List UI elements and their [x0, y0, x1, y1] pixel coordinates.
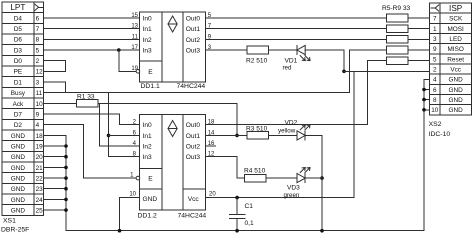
svg-text:15: 15: [131, 13, 138, 19]
svg-text:GND: GND: [11, 186, 26, 193]
resistor R8 33: [386, 46, 408, 54]
svg-text:GND: GND: [449, 107, 464, 114]
wire XS1 GND pin 23: [44, 188, 67, 190]
svg-text:10: 10: [36, 101, 44, 108]
wire XS1 GND pin 19: [44, 145, 67, 147]
wire GND bus vertical: [66, 135, 424, 230]
wire XS1 GND pin 22: [44, 177, 67, 179]
svg-text:GND: GND: [11, 133, 26, 140]
svg-text:XS1: XS1: [3, 218, 16, 225]
svg-text:D2: D2: [14, 122, 23, 129]
svg-text:Out2: Out2: [186, 144, 201, 151]
wire DD1.1 Out0 to R5: [206, 17, 387, 19]
resistor R7 33: [386, 36, 408, 44]
junction LED rail/GND bus: [320, 229, 324, 233]
wire XS2 GND bus vertical: [423, 79, 425, 230]
svg-text:10: 10: [129, 192, 136, 198]
svg-text:GND: GND: [11, 165, 26, 172]
wire VD2 cathode down: [305, 135, 322, 178]
svg-text:24: 24: [36, 197, 44, 204]
svg-text:D7: D7: [14, 111, 23, 118]
LED VD1 red: [296, 45, 298, 54]
svg-text:In2: In2: [143, 144, 152, 151]
connector XS1 DBR-25F (LPT): [2, 2, 44, 215]
svg-text:4: 4: [433, 77, 437, 84]
svg-text:In0: In0: [143, 122, 152, 129]
svg-text:7: 7: [433, 16, 437, 23]
svg-text:D4: D4: [14, 15, 23, 22]
wire D5 to DD1.1 In1: [44, 28, 140, 30]
junction XS2 GND pin10: [422, 108, 426, 112]
svg-text:Reset: Reset: [447, 56, 464, 63]
wire D3 to DD1.1 E pin 19: [119, 50, 136, 71]
svg-text:VD2: VD2: [285, 119, 298, 126]
svg-text:D6: D6: [14, 37, 23, 44]
wire XS2 GND pin4: [424, 78, 430, 80]
wire DD1.2 GND pin10 to bus: [120, 198, 140, 231]
svg-text:SCK: SCK: [449, 16, 463, 23]
junction XS2 GND pin6: [422, 88, 426, 92]
wire R1 to node: [98, 102, 237, 104]
svg-text:GND: GND: [143, 196, 158, 203]
svg-text:PE: PE: [14, 69, 23, 76]
svg-text:green: green: [284, 192, 300, 199]
wire XS2 GND pin10: [424, 109, 430, 111]
wire R8 to MISO drop: [350, 50, 387, 93]
wire XS1 GND pin 18: [44, 134, 67, 136]
svg-text:20: 20: [209, 192, 216, 198]
svg-text:R5-R9 33: R5-R9 33: [382, 5, 411, 12]
junction GND bus: [64, 166, 68, 170]
svg-text:Vcc: Vcc: [450, 67, 461, 74]
wire D6 to DD1.1 In2: [44, 38, 140, 40]
svg-text:VD1: VD1: [285, 57, 298, 64]
svg-text:LED: LED: [449, 36, 462, 43]
svg-text:R1 33: R1 33: [77, 93, 95, 100]
junction GND bus: [64, 176, 68, 180]
svg-text:13: 13: [131, 24, 138, 30]
svg-text:red: red: [283, 64, 293, 71]
wire DD1.2 In1 stub: [109, 134, 140, 136]
wire VD3 to cathode rail: [305, 177, 322, 179]
junction D3/In3/E: [117, 48, 121, 52]
resistor R2 510: [247, 46, 269, 54]
wire DD1.2 Out2 stub: [206, 145, 216, 147]
svg-text:D5: D5: [14, 26, 23, 33]
wire Vcc row: [344, 70, 430, 72]
svg-text:12: 12: [36, 69, 44, 76]
wire MISO drop to DD1.2 In1/In3: [109, 93, 140, 157]
svg-text:GND: GND: [449, 97, 464, 104]
svg-text:23: 23: [36, 186, 44, 193]
junction C1/GND bus: [235, 229, 239, 233]
svg-text:In0: In0: [143, 16, 152, 23]
svg-text:Out1: Out1: [186, 133, 201, 140]
svg-text:25: 25: [36, 208, 44, 215]
wire R2 to VD1: [269, 49, 298, 51]
svg-text:Vcc: Vcc: [188, 196, 200, 203]
svg-text:8: 8: [36, 37, 40, 44]
wire D2 to DD1.2 E pin 1: [44, 125, 137, 178]
svg-text:21: 21: [36, 165, 44, 172]
svg-text:GND: GND: [11, 176, 26, 183]
svg-text:D3: D3: [14, 47, 23, 54]
junction GND pin10/bus: [118, 229, 122, 233]
svg-text:2: 2: [433, 67, 437, 74]
svg-text:11: 11: [132, 34, 139, 40]
svg-text:Busy: Busy: [11, 90, 26, 97]
svg-text:6: 6: [433, 87, 437, 94]
svg-text:Out3: Out3: [186, 48, 201, 55]
svg-text:VD3: VD3: [287, 184, 300, 191]
inversion circle DD1.2 E pin: [136, 176, 140, 180]
wire D0-PE loopback: [44, 61, 66, 72]
svg-text:R2 510: R2 510: [246, 57, 268, 64]
svg-text:14: 14: [208, 130, 215, 136]
svg-text:4: 4: [36, 122, 40, 129]
svg-text:17: 17: [131, 45, 138, 51]
svg-text:20: 20: [36, 154, 44, 161]
svg-text:74HC244: 74HC244: [178, 212, 207, 219]
wire R1 branch to DD1.2 In2: [100, 103, 140, 146]
wire VD1 anode to Vcc row: [305, 50, 344, 71]
svg-text:R4 510: R4 510: [244, 167, 266, 174]
wire DD1.2 Out3 to R4: [206, 157, 245, 178]
wire R3 to VD2: [269, 134, 298, 136]
wire DD1.1 Out2 to R7: [206, 38, 387, 40]
LED VD2 yellow: [297, 131, 305, 140]
wire R5 to XS2 SCK: [408, 17, 430, 19]
svg-text:Out2: Out2: [186, 37, 201, 44]
svg-text:GND: GND: [11, 197, 26, 204]
svg-text:LPT: LPT: [10, 3, 25, 12]
svg-text:In1: In1: [143, 26, 152, 33]
wire DD1.1 Out3 to R2: [206, 49, 247, 51]
svg-text:In3: In3: [143, 48, 152, 55]
op-amp buffer DD1.2 74HC244: [140, 115, 206, 210]
svg-text:E: E: [148, 69, 153, 76]
svg-text:Out3: Out3: [186, 154, 201, 161]
wire R7 to XS2 LED: [408, 38, 430, 40]
svg-text:yellow: yellow: [278, 128, 296, 135]
svg-text:IDC-10: IDC-10: [429, 131, 451, 138]
op-amp buffer DD1.1 74HC244: [140, 12, 206, 82]
junction GND bus: [64, 198, 68, 202]
wire XS1 GND pin 25: [44, 209, 67, 211]
junction MISO/In1: [107, 134, 111, 138]
svg-text:74HC244: 74HC244: [177, 83, 206, 90]
inversion circle DD1.1 E pin: [136, 70, 140, 74]
wire Ack to R1: [44, 102, 77, 104]
wire R9 to DD1.2 Out0: [206, 61, 387, 125]
svg-text:D0: D0: [14, 58, 23, 65]
svg-text:11: 11: [36, 90, 43, 97]
svg-text:Out0: Out0: [186, 122, 201, 129]
svg-text:19: 19: [36, 143, 44, 150]
svg-text:DD1.1: DD1.1: [141, 83, 160, 90]
svg-text:R3 510: R3 510: [246, 125, 268, 132]
svg-text:Out1: Out1: [186, 26, 201, 33]
svg-text:6: 6: [36, 15, 40, 22]
svg-text:8: 8: [433, 97, 437, 104]
svg-text:2: 2: [36, 58, 40, 65]
wire R8 to XS2 MISO: [408, 49, 430, 51]
wire R6 to XS2 MOSI: [408, 28, 430, 30]
svg-text:Ack: Ack: [13, 101, 24, 108]
junction R1/Out1/R3: [235, 134, 239, 138]
junction GND bus: [64, 187, 68, 191]
svg-text:3: 3: [433, 36, 437, 43]
svg-text:DD1.2: DD1.2: [138, 212, 157, 219]
connector XS2 IDC-10 (ISP): [430, 3, 472, 115]
wire LED cathode rail to GND bus: [321, 178, 323, 231]
svg-text:GND: GND: [11, 154, 26, 161]
wire DD1.2 Vcc pin20: [206, 197, 355, 199]
svg-text:Out0: Out0: [186, 16, 201, 23]
svg-text:GND: GND: [449, 77, 464, 84]
resistor R1 33: [76, 100, 98, 108]
svg-text:C1: C1: [245, 203, 254, 210]
svg-text:9: 9: [433, 46, 437, 53]
svg-text:XS2: XS2: [429, 121, 442, 128]
svg-text:0,1: 0,1: [245, 220, 254, 227]
svg-text:22: 22: [36, 176, 44, 183]
wire XS1 GND pin 21: [44, 166, 67, 168]
svg-text:MOSI: MOSI: [447, 26, 464, 33]
wire XS1 GND pin 24: [44, 198, 67, 200]
junction Vcc/C1: [235, 196, 239, 200]
wire R1 net down to Out1 row: [236, 103, 238, 135]
svg-text:7: 7: [36, 26, 40, 33]
wire D4 to DD1.1 In0: [44, 17, 140, 19]
svg-text:In3: In3: [143, 154, 152, 161]
wire R9 to XS2 Reset: [408, 60, 430, 62]
wire Busy/MISO net: [66, 92, 350, 94]
svg-text:GND: GND: [11, 143, 26, 150]
LED VD3 green: [297, 174, 305, 183]
resistor R6 33: [386, 25, 408, 33]
resistor R9 33: [386, 57, 408, 65]
svg-text:1: 1: [433, 26, 437, 33]
wire DD1.1 Out1 to R6: [206, 28, 387, 30]
svg-text:D1: D1: [14, 79, 23, 86]
wire R4 to VD3: [266, 177, 297, 179]
svg-text:3: 3: [36, 79, 40, 86]
svg-text:5: 5: [433, 56, 437, 63]
svg-text:MISO: MISO: [447, 46, 463, 53]
resistor R5 33: [386, 14, 408, 22]
wire XS2 GND pin8: [424, 99, 430, 101]
wire XS1 GND pin 20: [44, 156, 67, 158]
junction GND bus: [64, 155, 68, 159]
wire D3 to DD1.1 In3: [44, 49, 140, 51]
wire D1-Busy loopback: [44, 82, 66, 93]
resistor R4 510: [245, 174, 267, 182]
resistor R3 510: [247, 132, 269, 140]
wire XS2 GND pin6: [424, 89, 430, 91]
junction VD2/VD3 cathode: [320, 176, 324, 180]
svg-text:E: E: [148, 176, 153, 183]
junction GND bus: [64, 144, 68, 148]
svg-text:9: 9: [36, 111, 40, 118]
capacitor C1 0.1: [229, 214, 245, 216]
wire Vcc riser: [353, 71, 355, 197]
svg-text:5: 5: [36, 47, 40, 54]
svg-text:DBR-25F: DBR-25F: [1, 227, 29, 234]
wire DD1.2 Out1 to R3: [206, 134, 247, 136]
svg-text:GND: GND: [11, 208, 26, 215]
junction VD1/Vcc: [342, 70, 346, 74]
wire C1 bottom to GND bus: [236, 219, 238, 231]
wire C1 top: [236, 198, 238, 215]
junction GND bus: [64, 208, 68, 212]
wire D7 to DD1.2 In0: [44, 114, 140, 125]
svg-text:16: 16: [208, 141, 215, 147]
svg-text:In2: In2: [143, 37, 152, 44]
svg-text:12: 12: [208, 152, 215, 158]
svg-text:GND: GND: [449, 87, 464, 94]
svg-text:18: 18: [36, 133, 44, 140]
junction XS2 GND pin8: [422, 98, 426, 102]
svg-text:ISP: ISP: [449, 4, 463, 13]
svg-text:10: 10: [431, 107, 439, 114]
svg-text:In1: In1: [143, 133, 152, 140]
svg-text:18: 18: [208, 120, 215, 126]
